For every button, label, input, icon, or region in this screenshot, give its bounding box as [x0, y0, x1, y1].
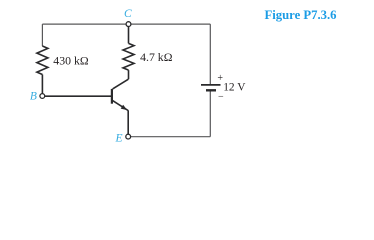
svg-text:430 kΩ: 430 kΩ: [53, 53, 89, 67]
svg-text:B: B: [30, 91, 37, 103]
svg-text:Figure P7.3.6: Figure P7.3.6: [265, 8, 337, 22]
svg-text:+: +: [217, 73, 223, 84]
svg-text:12 V: 12 V: [223, 82, 246, 94]
svg-text:C: C: [124, 8, 132, 20]
svg-text:E: E: [115, 132, 123, 144]
svg-text:4.7 kΩ: 4.7 kΩ: [140, 50, 173, 64]
svg-text:−: −: [218, 92, 224, 103]
